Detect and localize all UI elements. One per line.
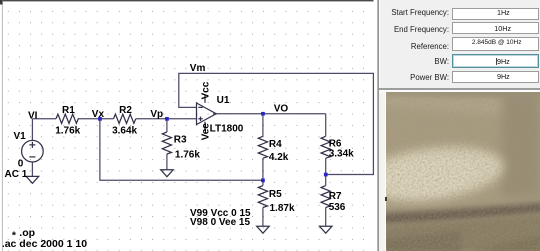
node Vx junction dot (98, 117, 102, 121)
resistor R5 (258, 186, 267, 208)
dialog row Start Frequency (379, 8, 449, 17)
V1 plus sign (29, 142, 35, 148)
photo wallpaper bottom right (386, 92, 540, 251)
window left edge line (1, 0, 4, 251)
svg-text:R2: R2 (119, 105, 132, 116)
wire R2 to Vp to opamp plus input (136, 118, 197, 120)
svg-text:4.2k: 4.2k (269, 152, 289, 163)
dialog panel (379, 0, 540, 88)
resistor R2 (114, 114, 136, 123)
svg-text:0: 0 (18, 158, 24, 169)
svg-text:Vcc: Vcc (200, 81, 211, 99)
wire V1 bottom to ground (31, 162, 33, 177)
V1 minus sign (29, 156, 35, 158)
window top edge line (0, 0, 374, 1)
op-amp Vee pin stub (204, 122, 206, 131)
svg-text:3.34k: 3.34k (329, 149, 354, 160)
op-amp plus input glyph (198, 117, 202, 121)
wire R6 top stub (325, 114, 327, 137)
node Vp junction dot (165, 117, 169, 121)
wire R1 to Vx (80, 118, 114, 120)
svg-text:3.64k: 3.64k (112, 125, 137, 136)
svg-text:V98 0 Vee 15: V98 0 Vee 15 (190, 217, 250, 228)
wire Vp down to R3 (166, 119, 168, 132)
wire R7 top stub (325, 175, 327, 186)
svg-text:U1: U1 (217, 95, 230, 106)
wire R6 bottom stub (325, 158, 327, 174)
dialog bottom border (379, 88, 540, 89)
grid dots (0, 2, 374, 251)
svg-text:Vm: Vm (190, 63, 206, 74)
svg-text:R4: R4 (269, 139, 282, 150)
dialog row Reference (379, 42, 449, 51)
wire R3 to ground (166, 154, 168, 170)
left edge dark mark top (0, 0, 3, 5)
dialog row Power BW (379, 73, 449, 82)
svg-text:VI: VI (28, 110, 38, 121)
svg-text:1.87k: 1.87k (270, 203, 295, 214)
svg-text:Vx: Vx (92, 109, 105, 120)
resistor R1 (56, 114, 80, 123)
dialog row BW focused (379, 57, 449, 66)
svg-text:Vp: Vp (150, 109, 163, 120)
ground under R7 (320, 226, 333, 233)
voltage source V1 circle (22, 140, 44, 162)
svg-text:.ac dec 2000 1 10: .ac dec 2000 1 10 (2, 238, 87, 250)
wire VI vertical (31, 119, 33, 141)
node R4/R5 junction dot (261, 179, 265, 183)
node R6/R7 junction dot (324, 173, 328, 177)
svg-text:V1: V1 (14, 131, 27, 142)
resistor R6 (321, 136, 330, 158)
wire R5 top stub (262, 180, 264, 185)
svg-text:1.76k: 1.76k (55, 125, 80, 136)
photo left dark mark (385, 197, 387, 201)
svg-text:R7: R7 (329, 191, 342, 202)
op-amp minus input glyph (198, 106, 202, 108)
svg-text:Vee: Vee (201, 123, 212, 141)
wire R7 bottom stub (325, 208, 327, 227)
op-amp U1 triangle (197, 103, 217, 125)
wire Vx down and bottom run to R4/R5 junction (100, 119, 263, 181)
wire R5 bottom stub (262, 208, 264, 227)
svg-text:R1: R1 (62, 105, 75, 116)
wire feedback Vm: minus input up over to R6/R7 tap (179, 73, 374, 174)
wire VI to R1 (32, 118, 56, 120)
ground under R5 (257, 226, 270, 233)
BW cursor (496, 58, 497, 65)
ground under V1 (26, 176, 39, 183)
svg-text:R3: R3 (174, 135, 187, 146)
node VO junction dot (261, 112, 265, 116)
schematic right border (377, 0, 379, 251)
wire opamp output to VO and R6 branch (213, 113, 326, 115)
resistor R3 (162, 132, 171, 154)
white strip below dialog left of photo (379, 90, 540, 92)
svg-text:VO: VO (274, 103, 289, 114)
wire R4 bottom stub (262, 158, 264, 180)
resistor R7 (321, 186, 330, 208)
resistor R4 (258, 136, 267, 158)
svg-text:AC 1: AC 1 (5, 169, 28, 180)
svg-text:R5: R5 (269, 189, 282, 200)
dialog row End Frequency (379, 25, 449, 34)
wire R4 top stub (262, 114, 264, 137)
op-amp Vcc pin stub (204, 95, 206, 103)
svg-text:LT1800: LT1800 (210, 123, 244, 134)
svg-text:536: 536 (329, 202, 346, 213)
svg-text:1.76k: 1.76k (175, 149, 200, 160)
ground under R3 (161, 170, 174, 177)
